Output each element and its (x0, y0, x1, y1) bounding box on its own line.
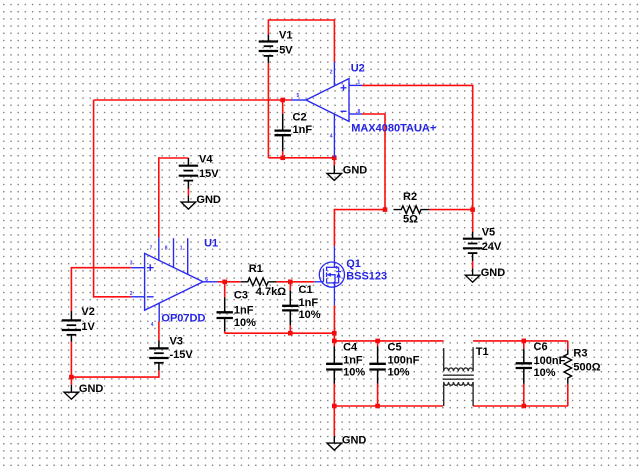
wire C1 bottom stub (289, 325, 291, 333)
svg-text:500Ω: 500Ω (573, 362, 600, 374)
svg-text:1nF: 1nF (299, 297, 319, 309)
wire C5 top stub (377, 341, 379, 346)
svg-text:1nF: 1nF (293, 124, 313, 136)
svg-text:5: 5 (297, 93, 300, 99)
svg-text:GND: GND (79, 383, 104, 395)
svg-text:1V: 1V (81, 321, 95, 333)
svg-text:MAX4080TAUA+: MAX4080TAUA+ (351, 123, 436, 135)
svg-text:3: 3 (130, 261, 133, 267)
svg-text:8: 8 (165, 246, 168, 252)
ground under U2 (327, 166, 342, 181)
wire R3 bottom stub (567, 384, 569, 406)
svg-text:C4: C4 (343, 341, 358, 353)
resistor R1 (241, 278, 277, 286)
svg-text:R1: R1 (249, 263, 263, 275)
wire R2 node up to U2 pin8 (362, 114, 385, 210)
battery V4 (179, 158, 198, 189)
svg-text:V5: V5 (482, 227, 495, 239)
op-amp U1 (131, 238, 218, 322)
svg-text:V1: V1 (279, 29, 292, 41)
ground under V4 (181, 196, 196, 210)
wire V2 to U1 pin3 (71, 268, 130, 311)
svg-text:1: 1 (180, 246, 183, 252)
svg-text:1nF: 1nF (234, 305, 254, 317)
svg-text:4: 4 (330, 134, 333, 140)
wire U1 out to R1 (218, 281, 241, 283)
wire bottom rail right (473, 405, 568, 407)
svg-text:BSS123: BSS123 (346, 270, 387, 282)
wire C5 bottom stub (377, 384, 379, 407)
resistor R3 (564, 349, 572, 383)
svg-text:100nF: 100nF (388, 355, 420, 367)
svg-text:U2: U2 (351, 62, 365, 74)
wire ground node to V3 bottom (71, 370, 158, 377)
capacitor C3 (217, 297, 233, 331)
wire Q1 source down to rail (333, 305, 335, 333)
transformer T1 (443, 347, 474, 406)
svg-text:C1: C1 (299, 284, 313, 296)
wire V4 to U1 pin7 (159, 158, 189, 238)
capacitor C4 (326, 346, 342, 383)
wire Q1 drain to R2 node (334, 210, 385, 247)
wire R3 top stub (567, 341, 569, 350)
resistor R2 (394, 206, 430, 214)
wire V5 GND stub (472, 261, 474, 268)
wire V1 top loop to U2 V+ (268, 20, 334, 62)
wire C2 top stub (282, 100, 284, 114)
wire U2 pin1 to V5 top (362, 85, 473, 231)
svg-text:5Ω: 5Ω (403, 214, 418, 226)
battery V1 (259, 34, 278, 63)
svg-text:GND: GND (343, 164, 368, 176)
wire U2 output to left bus (94, 99, 291, 101)
wire source rail to load rail (333, 333, 335, 341)
svg-text:5V: 5V (279, 44, 293, 56)
wire R1 to Q1 gate (277, 281, 314, 283)
capacitor C6 (516, 349, 532, 384)
battery V3 (149, 340, 168, 370)
svg-text:10%: 10% (388, 366, 410, 378)
svg-text:1: 1 (357, 80, 360, 86)
svg-text:C6: C6 (534, 341, 548, 353)
wire V4 GND stub (187, 189, 189, 196)
wire C3 bottom stub (224, 331, 226, 333)
svg-text:4: 4 (151, 322, 154, 328)
wire bottom rail left (334, 405, 443, 407)
wire C2 bottom stub (282, 151, 284, 158)
svg-text:100nF: 100nF (534, 355, 566, 367)
svg-text:24V: 24V (482, 241, 502, 253)
svg-text:6: 6 (205, 277, 208, 283)
svg-text:10%: 10% (343, 366, 365, 378)
wire left bus down to U1 pin2 (94, 100, 131, 297)
svg-text:Q1: Q1 (346, 258, 361, 270)
capacitor C1 (282, 291, 298, 325)
svg-text:GND: GND (481, 267, 506, 279)
svg-text:2: 2 (330, 70, 333, 76)
svg-text:U1: U1 (204, 238, 218, 250)
wire V3 top to U1 pin4 (158, 322, 160, 341)
svg-text:4.7kΩ: 4.7kΩ (256, 286, 286, 298)
capacitor C2 (275, 114, 291, 151)
wire C4 top stub (333, 341, 335, 346)
wire C4 bottom stub (333, 384, 335, 407)
wire C6 bottom stub (523, 384, 525, 406)
svg-text:C3: C3 (234, 289, 248, 301)
wire source rail (225, 332, 335, 334)
svg-text:8: 8 (358, 109, 361, 115)
svg-text:1nF: 1nF (343, 355, 363, 367)
wire V2 bottom to ground node (70, 342, 72, 377)
capacitor C5 (369, 346, 385, 383)
svg-text:C5: C5 (388, 341, 402, 353)
svg-text:V4: V4 (199, 153, 213, 165)
svg-text:10%: 10% (534, 367, 556, 379)
ground under V2/V3 (64, 385, 79, 399)
wire C6 top stub (523, 341, 525, 349)
svg-text:-15V: -15V (170, 349, 194, 361)
svg-text:GND: GND (342, 434, 367, 446)
ground bottom (327, 436, 342, 450)
wire C3 top stub (224, 282, 226, 298)
svg-text:10%: 10% (234, 317, 256, 329)
wire load rail left (334, 340, 443, 342)
battery V2 (62, 311, 81, 342)
op-amp U2 (291, 62, 362, 158)
svg-text:GND: GND (196, 194, 221, 206)
wire C1 top stub (289, 282, 291, 291)
svg-text:V3: V3 (170, 336, 183, 348)
battery V5 (463, 232, 482, 261)
svg-text:10%: 10% (299, 309, 321, 321)
svg-text:T1: T1 (476, 346, 489, 358)
wire U2 GND stem (333, 158, 335, 166)
wire GND stem bottom (333, 406, 335, 436)
wire V- rail to U2 GND node (268, 157, 334, 159)
svg-text:R2: R2 (403, 191, 417, 203)
svg-text:OP07DD: OP07DD (161, 313, 205, 325)
wire GND stem V2 (70, 377, 72, 385)
svg-text:7: 7 (150, 246, 153, 252)
ground under V5 (465, 268, 480, 282)
transistor Q1 (314, 246, 344, 305)
svg-text:C2: C2 (293, 112, 307, 124)
wire V1 bottom to V- rail (267, 63, 269, 158)
svg-text:2: 2 (130, 291, 133, 297)
wire load rail right (473, 340, 568, 342)
svg-text:15V: 15V (199, 168, 219, 180)
wire R2 right to V5 node (430, 209, 473, 211)
svg-text:R3: R3 (573, 347, 587, 359)
svg-text:V2: V2 (81, 306, 94, 318)
